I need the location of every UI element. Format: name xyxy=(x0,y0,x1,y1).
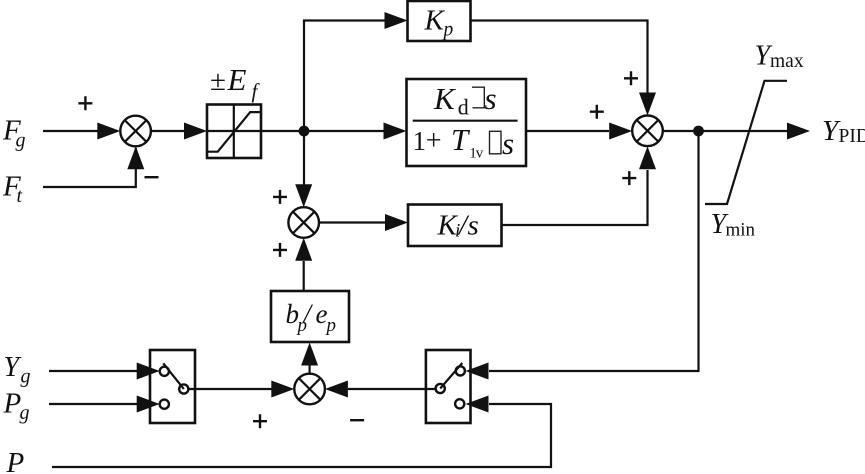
wire node N2 down to right switch top input xyxy=(466,131,699,380)
summing junction S1 xyxy=(120,116,151,147)
svg-text:g: g xyxy=(21,366,31,388)
wire bp/ep block to summer S3 xyxy=(295,238,312,291)
svg-text:max: max xyxy=(770,51,804,72)
wire left switch to summer S4 xyxy=(188,381,294,398)
switch block left (Yg/Pg selector) xyxy=(150,350,195,423)
svg-text:s: s xyxy=(468,210,479,242)
label Ymin xyxy=(711,209,756,240)
label ±Ef above saturation block xyxy=(210,62,261,103)
summing junction S4 xyxy=(294,374,325,405)
wire Kd block to summer S2 xyxy=(526,123,632,140)
wire node N1 up to Kp block xyxy=(304,12,408,131)
plus sign at summer S3 input from bp/ep block xyxy=(273,243,287,257)
block Ki/s xyxy=(408,205,502,247)
plus sign at summer S3 input from node N1 xyxy=(273,190,287,204)
block Kd·s/(1+T1v·s) xyxy=(407,79,527,166)
svg-text:PID: PID xyxy=(839,126,865,147)
node N2 junction dot xyxy=(693,126,704,137)
switch block right (feedback selector) xyxy=(426,350,471,423)
svg-text:t: t xyxy=(17,185,23,207)
svg-text:g: g xyxy=(20,402,30,424)
node label Pg xyxy=(3,387,30,424)
svg-text:g: g xyxy=(16,130,26,152)
svg-text:min: min xyxy=(726,219,756,240)
wire summer S4 up to bp/ep block xyxy=(301,343,318,374)
svg-text:±: ± xyxy=(210,65,226,97)
block bp/ep xyxy=(271,291,349,342)
svg-text:s: s xyxy=(502,126,514,161)
svg-text:P: P xyxy=(3,387,22,419)
svg-text:1: 1 xyxy=(413,126,427,156)
svg-text:P: P xyxy=(6,447,25,474)
node label Fg xyxy=(2,115,26,152)
wire summer S3 to Ki block xyxy=(319,214,408,231)
svg-text:+: + xyxy=(426,126,442,157)
wire Kp block to summer S2 xyxy=(471,21,657,116)
svg-text:T: T xyxy=(451,122,471,157)
wire summer S2 to output node N2 and YPID arrow xyxy=(663,123,810,140)
summing junction S2 xyxy=(632,116,663,147)
plus sign at summer S1 input from Fg xyxy=(78,96,92,110)
node label Yg xyxy=(4,352,31,387)
plus sign at summer S2 input from Ki block xyxy=(622,171,636,185)
svg-text:E: E xyxy=(227,62,247,97)
wire Yg to left switch xyxy=(49,363,160,380)
svg-text:K: K xyxy=(424,5,446,37)
wire node N1 to Kd block xyxy=(304,123,407,140)
wire right switch to summer S4 xyxy=(325,381,436,398)
wire P to right switch bottom input xyxy=(52,396,551,468)
block Kp xyxy=(408,1,471,41)
minus sign at summer S1 input from Ft xyxy=(145,176,159,178)
node N1 junction dot xyxy=(299,126,310,137)
plus sign at summer S2 input from Kp xyxy=(624,71,638,85)
plus sign at summer S4 input from left switch xyxy=(253,414,267,428)
wire summer S1 to saturation block xyxy=(151,123,207,140)
label Ymax xyxy=(755,41,804,73)
svg-text:d: d xyxy=(458,95,469,120)
saturation block ±Ef xyxy=(207,105,261,159)
wire Ki block to summer S2 bottom xyxy=(502,146,657,225)
node label Ft xyxy=(2,171,23,208)
wire node N1 down to summer S3 xyxy=(295,131,312,207)
svg-text:p: p xyxy=(442,20,454,41)
svg-text:v: v xyxy=(476,145,484,161)
minus sign at summer S4 input from right switch xyxy=(350,419,364,421)
wire Pg to left switch xyxy=(49,396,160,413)
svg-text:p: p xyxy=(325,315,337,336)
wire Fg to summer S1 xyxy=(43,123,120,140)
svg-text:K: K xyxy=(433,81,457,116)
output limiter slope symbol xyxy=(705,81,787,204)
plus sign at summer S2 input from Kd block xyxy=(590,105,604,119)
summing junction S3 xyxy=(288,207,319,238)
svg-text:s: s xyxy=(485,81,497,116)
wire saturation block to node N1 xyxy=(261,130,304,132)
node label YPID xyxy=(822,115,865,147)
wire Ft to summer S1 xyxy=(43,146,144,187)
